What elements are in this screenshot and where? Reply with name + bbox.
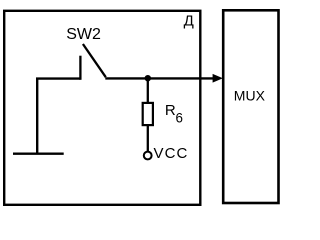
arrowhead into MUX (213, 74, 223, 83)
ground (13, 152, 64, 154)
svg-text:R: R (165, 102, 176, 119)
wire: left segment to switch SW2 (36, 77, 80, 79)
wire: resistor R6 bottom to VCC terminal (147, 125, 149, 151)
svg-text:Д: Д (184, 12, 194, 29)
wire: switch to MUX with arrow (105, 77, 214, 79)
svg-text:MUX: MUX (234, 88, 266, 104)
node junction dot (145, 75, 151, 81)
wire: junction to resistor R6 top (147, 78, 149, 103)
switch SW2 left contact pole (79, 56, 81, 80)
svg-text:SW2: SW2 (66, 26, 101, 43)
switch SW2 lever (open) (83, 44, 106, 77)
svg-text:6: 6 (176, 110, 183, 125)
block Д (left device box) (4, 11, 200, 205)
wire: ground branch vertical (36, 78, 38, 154)
VCC terminal (open circle) (144, 152, 152, 160)
block U2 MUX box (223, 10, 278, 203)
svg-text:VCC: VCC (154, 145, 189, 162)
resistor R6 (143, 103, 153, 125)
